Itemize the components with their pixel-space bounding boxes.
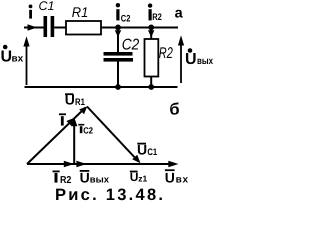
- svg-text:вых: вых: [90, 175, 110, 186]
- svg-text:U: U: [165, 170, 175, 186]
- svg-text:C2: C2: [83, 126, 93, 136]
- svg-text:C2: C2: [121, 13, 131, 24]
- resistor R2: [145, 39, 159, 77]
- svg-text:U: U: [80, 170, 90, 186]
- node J4 (bottom of R2 branch): [148, 84, 154, 90]
- svg-text:C1: C1: [147, 147, 157, 158]
- capacitor C1: [44, 16, 55, 37]
- svg-text:U: U: [65, 92, 75, 108]
- phasor IC2 arrowhead: [71, 117, 77, 126]
- input voltage arrow Uvx: [23, 36, 29, 85]
- node J2 (top of R2 branch): [148, 25, 154, 31]
- svg-text:a: a: [175, 6, 184, 22]
- current arrow into R2 branch: [148, 30, 154, 37]
- label Uvyx (U dot, subscript vyx): [185, 48, 213, 68]
- label Uvx (U dot, subscript vx): [1, 45, 24, 66]
- phasor vector IC2 (vertical): [73, 122, 75, 164]
- wire R2 branch lower: [150, 77, 152, 88]
- current label I (input current, dot above I): [29, 5, 33, 19]
- current label IR2: [148, 3, 162, 23]
- svg-text:вх: вх: [176, 175, 189, 186]
- phasor IR2 arrowhead on baseline: [64, 161, 74, 168]
- label UR1 (overbar): [65, 92, 86, 109]
- current arrow I on top wire: [28, 24, 38, 31]
- label IC2 (overbar): [78, 125, 93, 136]
- svg-text:R2: R2: [159, 45, 173, 62]
- svg-text:C1: C1: [39, 0, 55, 13]
- wire bottom: [25, 86, 178, 88]
- label Uvyx (overbar, below baseline): [80, 170, 110, 186]
- wire C1 to R1: [54, 27, 66, 29]
- wire R1 to right end: [101, 27, 178, 29]
- svg-text:R1: R1: [72, 4, 89, 20]
- svg-text:U: U: [130, 170, 139, 184]
- phasor I arrowhead (mid diagonal): [66, 118, 74, 126]
- svg-text:U: U: [185, 51, 197, 68]
- phasor baseline (real axis): [27, 163, 173, 165]
- svg-text:R2: R2: [152, 12, 162, 23]
- resistor R1: [66, 21, 101, 35]
- svg-text:вых: вых: [197, 56, 213, 67]
- wire C2 branch upper: [117, 28, 119, 53]
- svg-text:б: б: [169, 101, 179, 119]
- capacitor C2: [104, 52, 134, 62]
- node J3 (bottom of C2 branch): [115, 84, 121, 90]
- svg-text:C2: C2: [122, 36, 140, 53]
- svg-text:вх: вх: [12, 53, 24, 64]
- output voltage arrow Uvyx: [178, 35, 184, 83]
- phasor UR1 arrowhead at apex: [79, 106, 87, 114]
- label IR2 (overbar, below baseline): [53, 171, 72, 186]
- wire top-left segment: [24, 27, 44, 29]
- label UC1 (overbar): [137, 141, 158, 157]
- svg-text:U: U: [1, 49, 13, 66]
- label Uvx (overbar, below baseline): [165, 170, 189, 186]
- phasor UC1 arrowhead: [132, 155, 140, 164]
- node J1 (top of C2 branch): [115, 25, 121, 31]
- svg-text:R1: R1: [75, 97, 85, 108]
- phasor Uvx arrowhead (end of baseline): [168, 161, 178, 168]
- svg-text:R2: R2: [60, 175, 72, 186]
- wire C2 branch lower: [117, 62, 119, 88]
- label I (overbar): [59, 114, 66, 125]
- phasor vector UC1 (apex down to baseline): [87, 107, 139, 162]
- current label IC2: [116, 3, 131, 24]
- wire R2 branch upper: [150, 28, 152, 40]
- phasor Uvyx arrowhead on baseline: [76, 161, 86, 168]
- label Uz1 (overbar, below baseline): [130, 170, 148, 184]
- svg-text:z1: z1: [138, 173, 147, 183]
- svg-text:Рис. 13.48.: Рис. 13.48.: [55, 186, 163, 204]
- current arrow into C2 branch: [115, 30, 121, 37]
- phasor vector UR1 (diagonal from origin to apex): [27, 108, 86, 165]
- svg-text:U: U: [137, 141, 147, 157]
